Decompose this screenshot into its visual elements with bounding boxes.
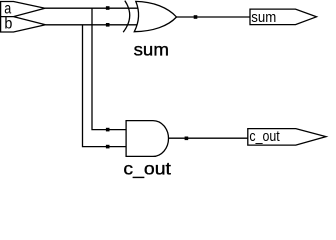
svg-text:c_out: c_out — [123, 159, 171, 180]
svg-text:c_out: c_out — [249, 128, 280, 145]
svg-text:b: b — [4, 16, 12, 33]
svg-text:sum: sum — [134, 39, 169, 59]
svg-text:sum: sum — [251, 9, 276, 26]
